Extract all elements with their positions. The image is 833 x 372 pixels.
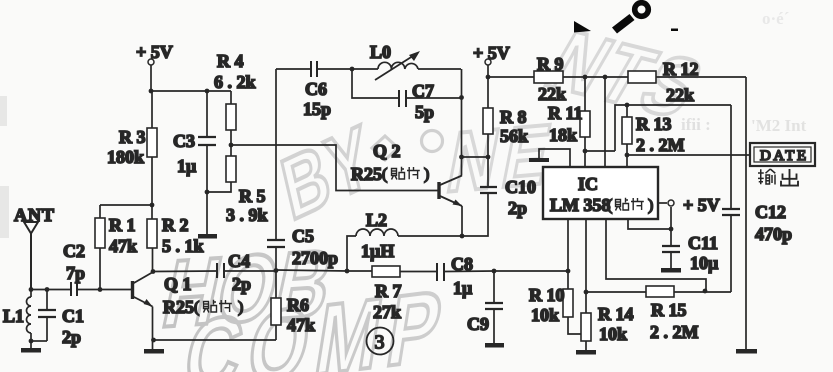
wire output to DATE: [627, 154, 751, 156]
wire R14/R15 net: [586, 291, 731, 293]
node R3 top: [149, 89, 154, 94]
node L2/R7: [345, 269, 350, 274]
circled 3 figure number: [367, 328, 394, 355]
resistor R11: [580, 77, 590, 167]
resistor R12: [628, 71, 656, 83]
wire top-left rail: [151, 90, 231, 92]
svg-text:o·é´: o·é´: [762, 9, 789, 28]
IC pin ground stub: [529, 149, 570, 167]
svg-text:2p: 2p: [508, 198, 527, 218]
node R11 bottom: [583, 149, 588, 154]
node Q1 emitter ground rail: [151, 338, 156, 343]
svg-text:R 13: R 13: [636, 114, 672, 134]
svg-text:15p: 15p: [303, 99, 331, 119]
svg-text:6 . 2k: 6 . 2k: [214, 72, 256, 92]
wire ground rail: [153, 339, 277, 341]
svg-text:C3: C3: [173, 131, 195, 151]
wire Q1 base: [31, 289, 132, 291]
inductor L2: [347, 229, 462, 271]
node C3 top: [205, 89, 210, 94]
svg-text:Q 1: Q 1: [164, 274, 192, 294]
svg-text:): ): [648, 197, 653, 214]
svg-text:): ): [424, 166, 429, 183]
svg-text:C1: C1: [62, 306, 84, 326]
svg-text:3: 3: [375, 332, 385, 354]
svg-text:1μ: 1μ: [177, 156, 196, 176]
wire R12 riser to ground: [745, 77, 747, 349]
node R10 top / IC pin2: [566, 269, 571, 274]
node R1 bottom: [98, 287, 103, 292]
node +5V rail: [486, 75, 491, 80]
wire emitter to C10 bottom: [462, 193, 488, 236]
svg-text:7p: 7p: [66, 263, 85, 283]
node C6/L0/C7: [350, 67, 355, 72]
resistor R1: [95, 205, 105, 290]
wire +5V rail: [488, 76, 746, 78]
wire R4/R5 node to Q2 base: [231, 145, 439, 191]
svg-text:R 1: R 1: [109, 215, 136, 235]
svg-text:C9: C9: [467, 314, 489, 334]
svg-text:5p: 5p: [415, 102, 434, 122]
svg-text:R 9: R 9: [537, 54, 564, 74]
node C11 top: [669, 227, 674, 232]
svg-text:R 14: R 14: [598, 304, 634, 324]
node L1 bottom: [29, 339, 34, 344]
ground R14: [576, 350, 596, 355]
svg-text:1μ: 1μ: [453, 278, 472, 298]
wire collector to R8/C10: [462, 156, 489, 158]
svg-text:18k: 18k: [549, 125, 577, 145]
svg-text:R 8: R 8: [500, 107, 527, 127]
svg-text:R 12: R 12: [663, 59, 699, 79]
svg-text:Q 2: Q 2: [373, 141, 401, 161]
svg-text:2700p: 2700p: [292, 248, 338, 268]
svg-text:3 . 9k: 3 . 9k: [226, 205, 268, 225]
IC pin to R14 node: [585, 219, 587, 292]
ground C9: [485, 343, 504, 348]
resistor R9: [534, 71, 563, 83]
resistor R5: [207, 145, 236, 192]
label output chinese: [758, 169, 798, 186]
ground L1: [21, 341, 41, 353]
svg-text:+ 5V: + 5V: [473, 43, 510, 63]
svg-text:R25: R25: [351, 164, 382, 184]
node C7/Q2 collector riser: [459, 95, 464, 100]
svg-text:10k: 10k: [531, 305, 559, 325]
label Q2 type R25 SMD: [351, 164, 429, 184]
resistor R10: [563, 271, 586, 334]
svg-text:R 2: R 2: [162, 215, 189, 235]
wire C3 to ground: [206, 192, 208, 234]
svg-text:10k: 10k: [599, 324, 627, 344]
svg-text:2 . 2M: 2 . 2M: [636, 135, 685, 155]
svg-text:L0: L0: [370, 42, 391, 62]
svg-text:C6: C6: [305, 79, 327, 99]
svg-text:1μH: 1μH: [361, 241, 394, 261]
wire collector to C4: [153, 270, 216, 273]
capacitor C6: [276, 61, 352, 77]
transistor Q1: [133, 248, 154, 340]
svg-text:R25: R25: [163, 297, 194, 317]
label Q1 type R25 SMD: [163, 297, 243, 317]
+5V supply 3: [658, 200, 674, 229]
svg-text:C7: C7: [412, 81, 434, 101]
watermark HOBBY COMPONENTS: [155, 13, 721, 372]
svg-text:C4: C4: [228, 251, 250, 271]
svg-text:47k: 47k: [287, 315, 315, 335]
svg-text:R 11: R 11: [548, 103, 583, 123]
scan smudges: [0, 96, 9, 238]
svg-text:'M2 Int: 'M2 Int: [751, 116, 807, 135]
svg-text:(: (: [382, 166, 387, 183]
antenna ANT: [24, 222, 38, 290]
svg-text:56k: 56k: [500, 126, 528, 146]
svg-text:IC: IC: [578, 174, 598, 194]
svg-text:10μ: 10μ: [690, 253, 718, 273]
node C4/C5/R6: [274, 268, 279, 273]
svg-text:22k: 22k: [538, 84, 566, 104]
capacitor C11: [661, 229, 681, 273]
resistor R13: [622, 105, 632, 155]
resistor R7: [372, 266, 436, 277]
node ant/L1: [29, 287, 34, 292]
svg-text:2p: 2p: [62, 327, 81, 347]
logo key: [574, 3, 678, 34]
resistor R15: [646, 286, 674, 297]
svg-text:470p: 470p: [755, 224, 792, 244]
svg-text:+ 5V: + 5V: [683, 195, 720, 215]
svg-text:R6: R6: [287, 295, 309, 315]
capacitor C10: [480, 157, 497, 193]
node R13 top: [625, 103, 630, 108]
svg-text:R 7: R 7: [375, 281, 402, 301]
capacitor C2: [71, 282, 77, 296]
node R4/R5: [229, 143, 234, 148]
transistor Q2: [439, 69, 462, 236]
node R11 top: [583, 75, 588, 80]
svg-text:5 . 1k: 5 . 1k: [162, 236, 204, 256]
capacitor C4: [217, 263, 224, 278]
ground Q1: [144, 340, 164, 354]
wire IC output pin: [626, 155, 628, 167]
capacitor C12: [722, 105, 740, 292]
node C3/R5: [205, 190, 210, 195]
wire R1 top: [100, 204, 152, 206]
resistor R6: [271, 270, 281, 340]
svg-text:+ 5V: + 5V: [136, 42, 173, 62]
svg-text:27k: 27k: [373, 302, 401, 322]
resistor R3: [147, 91, 157, 205]
svg-text:22k: 22k: [666, 85, 694, 105]
node R15 right: [703, 289, 708, 294]
node C1 top: [45, 287, 50, 292]
wire C4 to node: [225, 270, 276, 272]
svg-text:DATE: DATE: [760, 148, 809, 164]
capacitor C7: [352, 69, 461, 107]
svg-text:LM 358: LM 358: [550, 195, 611, 215]
inductor L1: [27, 289, 32, 341]
svg-text:ANT: ANT: [14, 205, 55, 225]
svg-text:(: (: [607, 197, 612, 214]
node Q2 emitter: [460, 234, 465, 239]
svg-text:R 5: R 5: [239, 186, 266, 206]
+5V supply 1: [148, 59, 154, 91]
node R3/R2/R1 junction: [150, 203, 155, 208]
svg-text:R 10: R 10: [529, 285, 565, 305]
ground R12 riser: [736, 349, 757, 354]
wire L1/C1 bottom: [31, 340, 47, 342]
svg-text:C12: C12: [755, 202, 786, 222]
svg-text:L2: L2: [366, 210, 387, 230]
IC pin to R15 right: [606, 219, 706, 291]
+5V supply 2: [485, 59, 491, 77]
capacitor C5: [267, 69, 285, 270]
node R8 bottom C10 top: [486, 155, 491, 160]
svg-text:ifii :: ifii :: [681, 115, 711, 134]
capacitor C8: [437, 263, 444, 281]
resistor R8: [483, 77, 493, 157]
svg-text:R 4: R 4: [217, 51, 244, 71]
inductor L0 variable: [352, 51, 461, 80]
svg-text:2 . 2M: 2 . 2M: [650, 322, 699, 342]
node Q2 collector / R8 wire: [459, 155, 464, 160]
svg-text:R 15: R 15: [651, 300, 687, 320]
DATE output box: [750, 143, 815, 166]
ground C3: [198, 234, 217, 239]
capacitor C9: [485, 271, 503, 343]
svg-text:L1: L1: [3, 306, 24, 326]
svg-text:C11: C11: [688, 233, 718, 253]
svg-text:): ): [238, 299, 243, 316]
node C9 top: [492, 269, 497, 274]
svg-text:180k: 180k: [107, 147, 144, 167]
node IC pin3 top: [603, 75, 608, 80]
svg-text:C5: C5: [292, 226, 314, 246]
node IC output: [625, 153, 630, 158]
node R14 top: [584, 290, 589, 295]
svg-text:(: (: [194, 299, 199, 316]
IC pin3 to rail: [604, 77, 606, 167]
bleed-through marks: [681, 9, 807, 135]
IC pin to C8 node: [567, 219, 569, 271]
wire C5 node to R7: [276, 270, 372, 271]
wire C8 to IC pin: [445, 270, 568, 273]
node Q1 collector: [151, 269, 156, 274]
IC box LM358: [543, 167, 658, 219]
label LM358 SMD: [550, 195, 653, 215]
svg-text:C10: C10: [505, 177, 536, 197]
svg-text:C2: C2: [63, 241, 85, 261]
resistor R4: [226, 91, 236, 145]
capacitor C1: [38, 289, 56, 341]
svg-text:2p: 2p: [232, 274, 251, 294]
capacitor C3: [198, 91, 216, 192]
resistor R14: [581, 292, 591, 350]
svg-text:47k: 47k: [109, 236, 137, 256]
wire R11 node to riser: [585, 105, 731, 151]
svg-text:R 3: R 3: [119, 127, 146, 147]
resistor R2: [147, 205, 157, 248]
IC pin V+: [628, 219, 671, 229]
